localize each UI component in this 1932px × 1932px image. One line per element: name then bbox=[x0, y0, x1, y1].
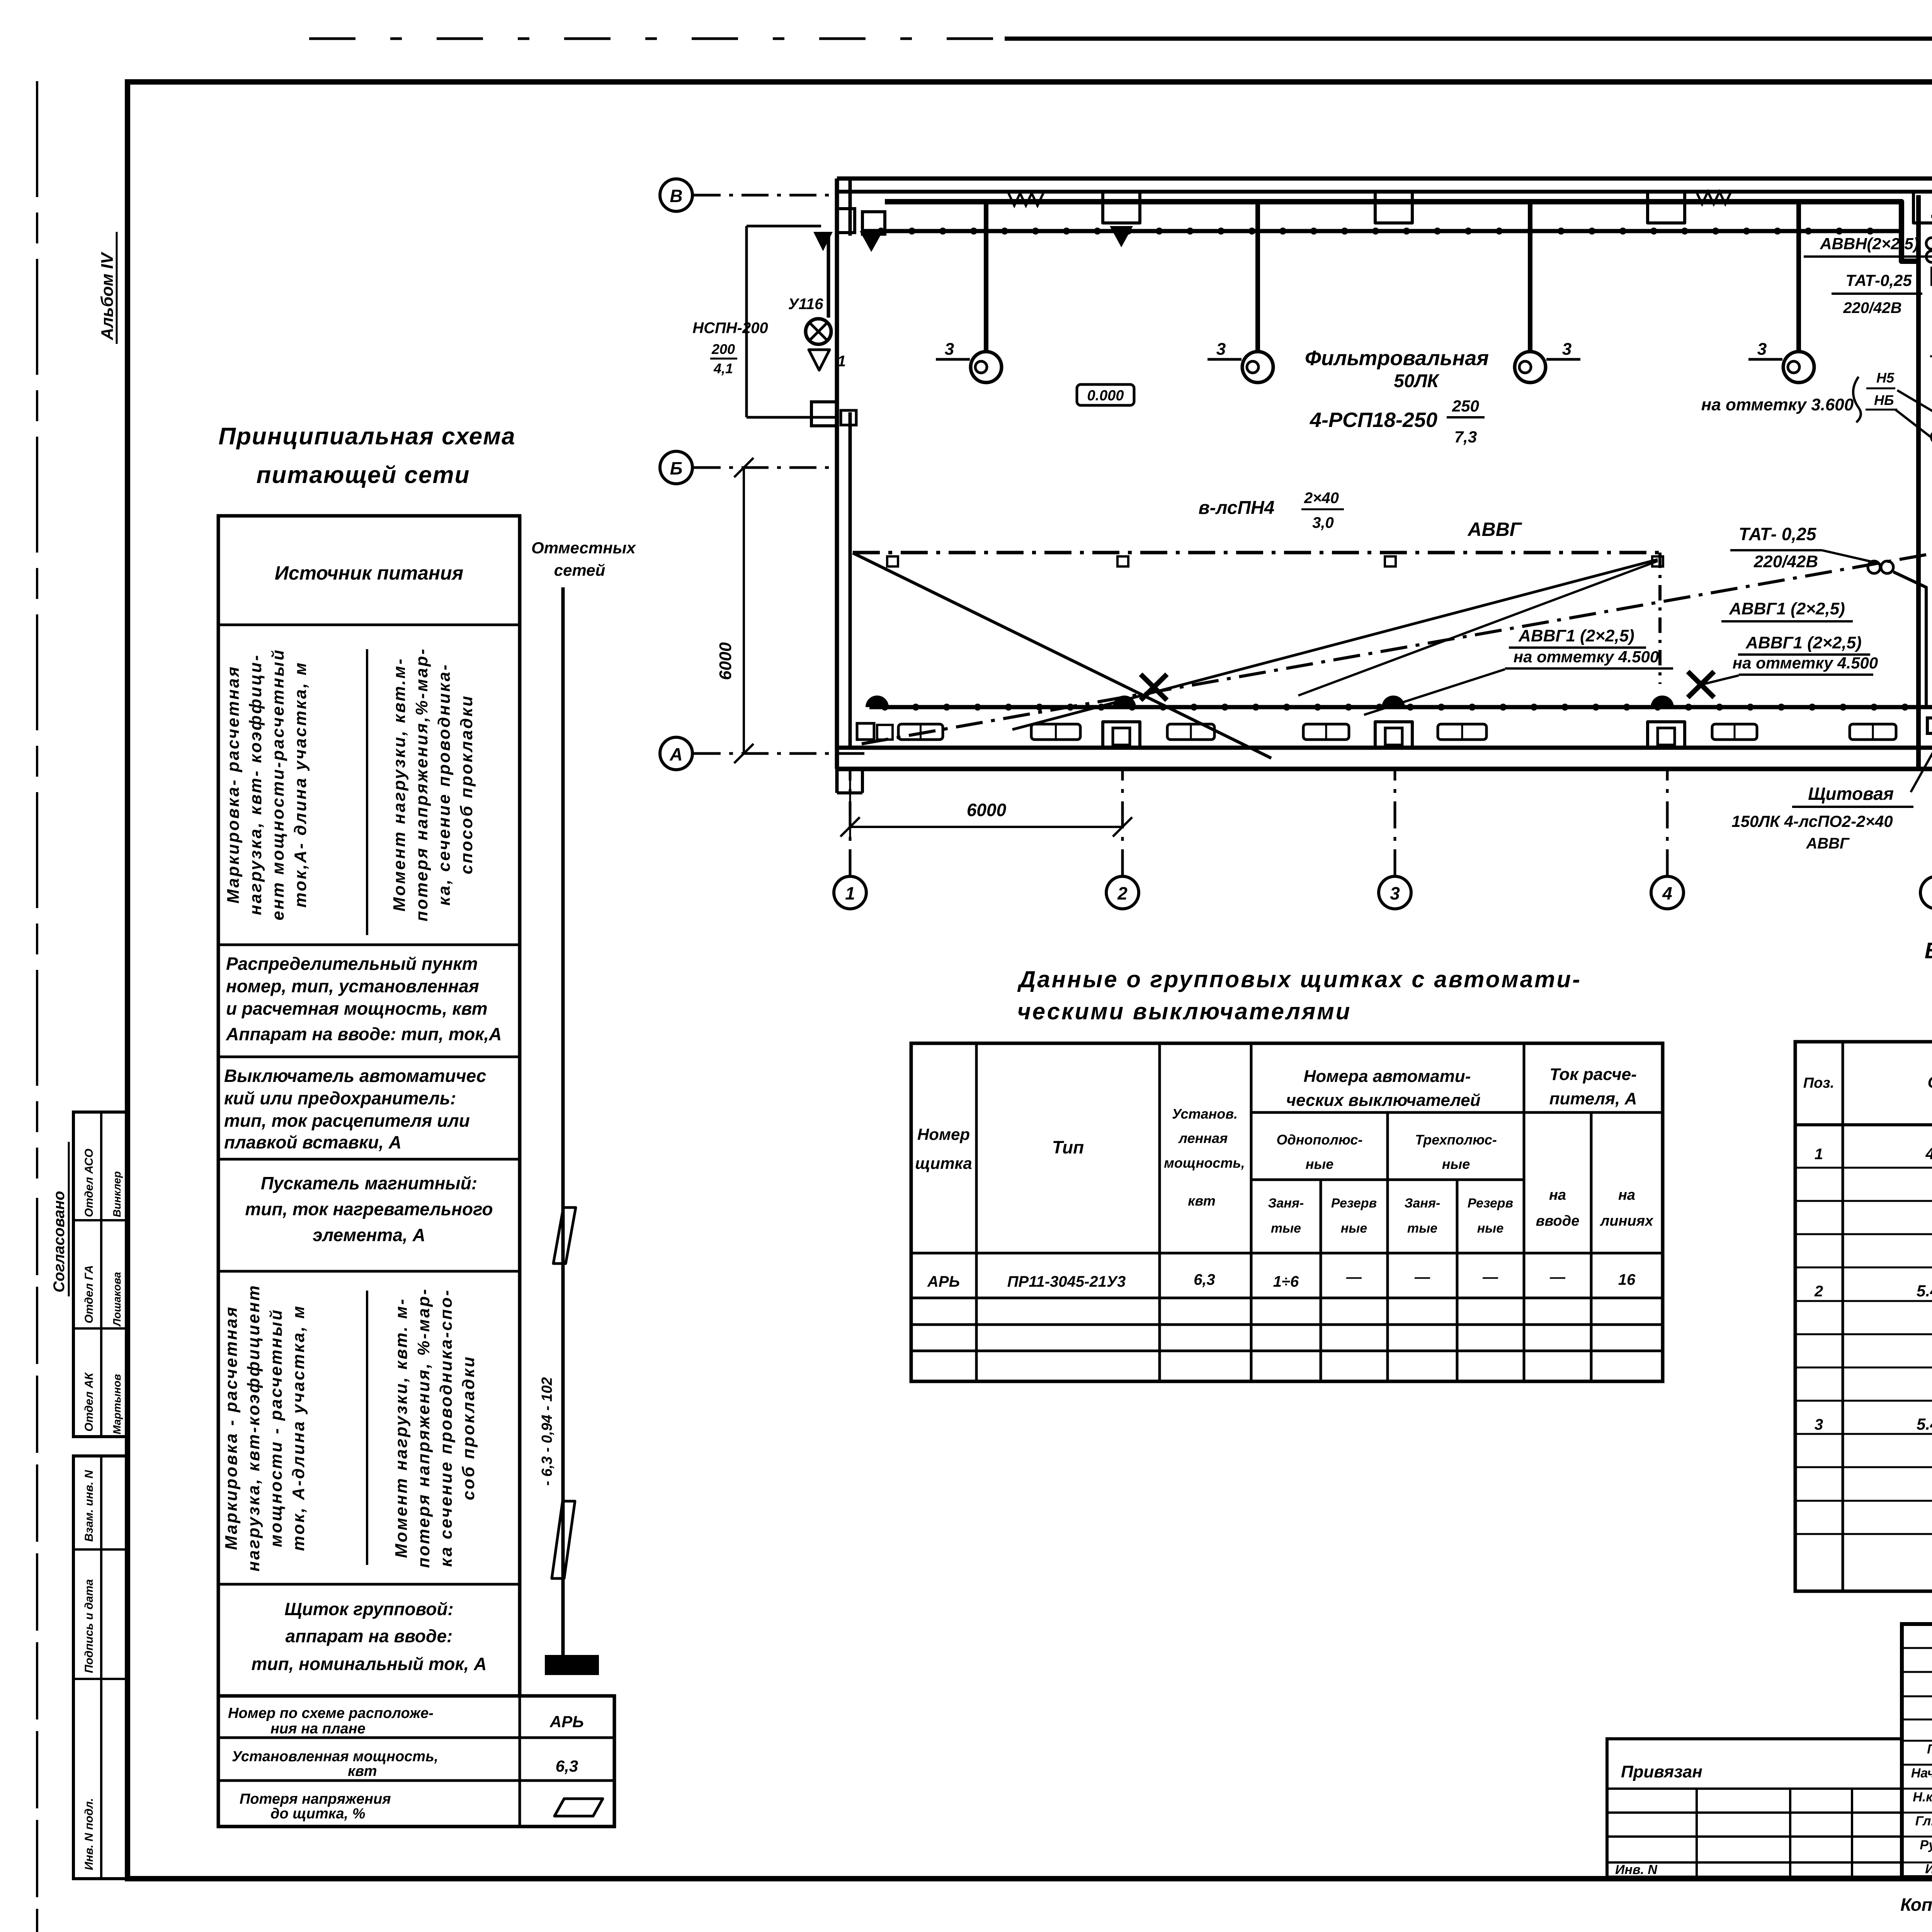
left small boxes bbox=[857, 723, 874, 740]
svg-text:220/42В: 220/42В bbox=[1753, 552, 1818, 571]
signature grid horizontals bbox=[1902, 1647, 1932, 1649]
svg-text:2: 2 bbox=[1814, 1283, 1823, 1300]
diagonal cable 3 bbox=[1012, 560, 1658, 730]
svg-text:Н.контр: Н.контр bbox=[1913, 1790, 1932, 1804]
svg-text:1÷6: 1÷6 bbox=[1273, 1273, 1299, 1290]
svg-text:ток, А-длина участка, м: ток, А-длина участка, м bbox=[289, 1304, 308, 1551]
svg-text:Лошакова: Лошакова bbox=[111, 1272, 123, 1327]
svg-text:Альбом IV: Альбом IV bbox=[98, 252, 117, 340]
break X 1 bbox=[1141, 674, 1167, 700]
svg-text:5.407-19: 5.407-19 bbox=[1917, 1415, 1932, 1433]
svg-text:АРЬ: АРЬ bbox=[927, 1273, 960, 1290]
svg-text:—: — bbox=[1346, 1269, 1362, 1286]
svg-text:Инв. N: Инв. N bbox=[1615, 1862, 1658, 1877]
svg-text:6000: 6000 bbox=[716, 642, 735, 680]
svg-text:потеря напряжения,%-мар-: потеря напряжения,%-мар- bbox=[412, 647, 431, 921]
svg-text:Источник питания: Источник питания bbox=[275, 562, 463, 584]
row marking 1 divider bbox=[366, 649, 368, 935]
title block frame bbox=[1902, 1624, 1932, 1877]
svg-text:щитка: щитка bbox=[915, 1154, 972, 1172]
grid col 5 bbox=[1920, 876, 1932, 909]
lamp drop 3960 bbox=[1528, 202, 1532, 352]
bus start point bbox=[860, 231, 883, 252]
svg-text:тип, ток нагревательного: тип, ток нагревательного bbox=[245, 1199, 493, 1219]
данные frame bbox=[911, 1043, 1663, 1381]
svg-text:Обозначение: Обозначение bbox=[1927, 1073, 1932, 1091]
svg-text:ток,А- длина участка, м: ток,А- длина участка, м bbox=[291, 661, 310, 908]
svg-text:ные: ные bbox=[1477, 1221, 1503, 1236]
radiator 2325 bbox=[898, 724, 943, 740]
svg-text:Трехполюс-: Трехполюс- bbox=[1415, 1132, 1497, 1148]
svg-text:Гл.спец: Гл.спец bbox=[1915, 1814, 1932, 1828]
svg-text:квт: квт bbox=[1188, 1193, 1216, 1209]
svg-text:2×40: 2×40 bbox=[1304, 490, 1339, 507]
bus corner pair bbox=[1926, 238, 1932, 249]
svg-text:Маркировка - расчетная: Маркировка - расчетная bbox=[222, 1306, 241, 1550]
svg-text:вводе: вводе bbox=[1536, 1213, 1580, 1229]
svg-text:3: 3 bbox=[1815, 1416, 1823, 1433]
radiator 3373 bbox=[1303, 724, 1349, 740]
svg-text:Рук.гр: Рук.гр bbox=[1920, 1838, 1932, 1852]
svg-text:3: 3 bbox=[1216, 340, 1226, 359]
niche lamp point bbox=[1110, 226, 1133, 247]
svg-text:кий или предохранитель:: кий или предохранитель: bbox=[224, 1088, 456, 1108]
svg-text:Распределительный пункт: Распределительный пункт bbox=[226, 954, 478, 974]
dome 4302 bbox=[1651, 696, 1674, 707]
svg-text:—: — bbox=[1482, 1269, 1498, 1286]
svg-text:способ прокладки: способ прокладки bbox=[457, 694, 476, 874]
svg-text:потеря напряжения, %-мар-: потеря напряжения, %-мар- bbox=[414, 1287, 433, 1568]
svg-text:Привязан: Привязан bbox=[1621, 1762, 1702, 1781]
svg-text:ческих выключателей: ческих выключателей bbox=[1286, 1091, 1480, 1110]
svg-text:пителя, А: пителя, А bbox=[1549, 1089, 1637, 1108]
switch wire bbox=[885, 202, 1920, 261]
top wall bbox=[837, 177, 1932, 181]
svg-text:3: 3 bbox=[1757, 340, 1767, 359]
leader Щитовая bbox=[1911, 726, 1932, 792]
top fold line bbox=[309, 37, 1005, 40]
svg-text:220/42В: 220/42В bbox=[1843, 299, 1901, 316]
svg-text:ные: ные bbox=[1306, 1156, 1334, 1172]
svg-text:Принципиальная схема: Принципиальная схема bbox=[218, 423, 515, 450]
svg-text:0.000: 0.000 bbox=[1087, 388, 1124, 404]
svg-text:Фильтровальная: Фильтровальная bbox=[1305, 347, 1489, 370]
svg-text:А: А bbox=[669, 744, 682, 764]
svg-text:1: 1 bbox=[845, 883, 855, 903]
svg-text:ент мощности-расчетный: ент мощности-расчетный bbox=[269, 648, 287, 920]
svg-text:4-РСП18-250: 4-РСП18-250 bbox=[1310, 408, 1437, 432]
данные horizontals bbox=[1251, 1111, 1663, 1114]
radiator 4431 bbox=[1712, 724, 1757, 740]
lamp drop 2552 bbox=[984, 202, 988, 352]
svg-text:Установ.: Установ. bbox=[1172, 1106, 1238, 1122]
svg-text:Поз.: Поз. bbox=[1803, 1075, 1835, 1091]
svg-text:Отдел АСО: Отдел АСО bbox=[83, 1149, 95, 1217]
radiator 3021 bbox=[1167, 724, 1214, 740]
grid col 3 bbox=[1379, 876, 1411, 909]
sheet edge left bbox=[36, 81, 38, 1179]
lamp УНБ bbox=[827, 232, 830, 318]
svg-text:Резерв: Резерв bbox=[1331, 1196, 1377, 1211]
svg-text:на отметку 4.500: на отметку 4.500 bbox=[1514, 648, 1659, 666]
dim 6000 horizontal bbox=[850, 826, 1122, 828]
svg-text:Щиток групповой:: Щиток групповой: bbox=[284, 1599, 454, 1619]
break X 2 bbox=[1688, 672, 1714, 697]
lamp drop 4655 bbox=[1796, 202, 1801, 352]
left wall bbox=[835, 179, 839, 769]
tray hanger 3598 bbox=[1385, 556, 1396, 566]
svg-text:АВВГ1 (2×2,5): АВВГ1 (2×2,5) bbox=[1729, 599, 1845, 618]
svg-text:ТАТ- 0,25: ТАТ- 0,25 bbox=[1739, 524, 1817, 544]
ведомость frame bbox=[1795, 1042, 1932, 1591]
stair boxes bbox=[837, 209, 855, 233]
tray hanger 2310 bbox=[887, 556, 898, 566]
svg-text:мощности - расчетный: мощности - расчетный bbox=[267, 1308, 286, 1547]
radiator 2669 bbox=[1031, 724, 1080, 740]
wall niche 3607 bbox=[1375, 192, 1412, 223]
row marking 2 divider bbox=[366, 1291, 368, 1565]
svg-text:на: на bbox=[1618, 1187, 1635, 1203]
grid row А bbox=[660, 737, 692, 770]
svg-text:АВВН(2×2,5): АВВН(2×2,5) bbox=[1820, 235, 1919, 253]
svg-text:Ведомость узлов установки э: Ведомость узлов установки электрического bbox=[1925, 938, 1932, 963]
schematic table frame bbox=[218, 516, 520, 1696]
svg-text:Взам. инв. N: Взам. инв. N bbox=[83, 1469, 95, 1542]
svg-text:ГИП: ГИП bbox=[1927, 1742, 1932, 1757]
tray hanger 2906 bbox=[1117, 556, 1128, 566]
svg-text:линиях: линиях bbox=[1600, 1213, 1654, 1229]
wall niche 2902 bbox=[1103, 192, 1140, 223]
grid row Б bbox=[660, 451, 692, 484]
tray hanger 4290 bbox=[1652, 556, 1663, 566]
svg-text:Согласовано: Согласовано bbox=[51, 1191, 68, 1293]
svg-text:НСПН-200: НСПН-200 bbox=[692, 320, 768, 337]
svg-text:6,3: 6,3 bbox=[556, 1757, 578, 1775]
svg-text:7,3: 7,3 bbox=[1454, 428, 1477, 446]
elevation 0.000 bbox=[1077, 384, 1134, 405]
svg-text:Тип: Тип bbox=[1052, 1137, 1084, 1157]
floor niche 3607 bbox=[1375, 722, 1412, 748]
dim 6000 vertical bbox=[743, 468, 745, 753]
svg-text:сетей: сетей bbox=[554, 561, 605, 579]
wall stub bbox=[835, 769, 839, 793]
svg-text:номер, тип, установленная: номер, тип, установленная bbox=[226, 976, 479, 996]
inventory block bbox=[73, 1456, 128, 1879]
кладовая top wall bbox=[1931, 215, 1932, 218]
grid col 2 bbox=[1106, 876, 1139, 909]
approval table bbox=[73, 1112, 128, 1437]
svg-text:Пускатель магнитный:: Пускатель магнитный: bbox=[261, 1173, 477, 1193]
svg-text:ные: ные bbox=[1442, 1156, 1470, 1172]
bottom bus bbox=[869, 705, 1932, 709]
svg-text:Б: Б bbox=[670, 458, 683, 478]
wall niche 4312 bbox=[1648, 192, 1685, 223]
ceiling bus bbox=[862, 229, 1901, 233]
svg-text:Ток расче-: Ток расче- bbox=[1549, 1065, 1637, 1084]
svg-text:Маркировка- расчетная: Маркировка- расчетная bbox=[224, 665, 243, 904]
feeder wire bbox=[561, 587, 565, 1656]
svg-text:АВВГ: АВВГ bbox=[1806, 835, 1850, 852]
svg-text:Инж.: Инж. bbox=[1925, 1862, 1932, 1876]
svg-text:Установленная мощность,: Установленная мощность, bbox=[232, 1748, 438, 1765]
wall niche 5000 bbox=[1913, 192, 1932, 223]
svg-text:в-лсПН4: в-лсПН4 bbox=[1199, 498, 1275, 518]
grid row В bbox=[660, 179, 692, 211]
feeder panel blob bbox=[545, 1655, 599, 1675]
svg-text:Щитовая: Щитовая bbox=[1808, 784, 1894, 804]
svg-text:В: В bbox=[670, 186, 682, 206]
НБ fixture bbox=[1931, 432, 1932, 442]
svg-text:соб прокладки: соб прокладки bbox=[459, 1355, 478, 1500]
svg-text:250: 250 bbox=[1452, 397, 1479, 415]
ведомость verticals bbox=[1842, 1042, 1844, 1591]
svg-text:50ЛК: 50ЛК bbox=[1394, 371, 1440, 391]
svg-text:Однополюс-: Однополюс- bbox=[1276, 1132, 1362, 1148]
svg-text:Мартынов: Мартынов bbox=[111, 1374, 123, 1434]
svg-text:ческими выключателями: ческими выключателями bbox=[1017, 998, 1352, 1024]
svg-text:4,1: 4,1 bbox=[713, 361, 733, 376]
svg-text:плавкой вставки, А: плавкой вставки, А bbox=[224, 1132, 401, 1152]
svg-text:до щитка, %: до щитка, % bbox=[270, 1806, 366, 1822]
svg-text:Момент нагрузки, квт. м-: Момент нагрузки, квт. м- bbox=[392, 1298, 411, 1558]
svg-text:4.407-233-001: 4.407-233-001 bbox=[1925, 1145, 1932, 1163]
cable tray bbox=[853, 551, 1660, 554]
svg-text:АВВГ1 (2×2,5): АВВГ1 (2×2,5) bbox=[1518, 626, 1634, 645]
svg-text:АВВГ: АВВГ bbox=[1467, 519, 1522, 540]
dome 2270 bbox=[866, 696, 889, 707]
feeder entry bbox=[745, 226, 748, 417]
svg-text:1: 1 bbox=[1815, 1146, 1823, 1163]
svg-text:3,0: 3,0 bbox=[1312, 514, 1334, 531]
svg-text:Н5: Н5 bbox=[1876, 370, 1895, 386]
wire squiggle 1 bbox=[1009, 193, 1043, 206]
svg-text:нагрузка, квт-коэффициент: нагрузка, квт-коэффициент bbox=[244, 1284, 263, 1571]
svg-text:ния на плане: ния на плане bbox=[270, 1721, 366, 1737]
данные verticals bbox=[975, 1043, 978, 1381]
svg-text:тип, ток расцепителя или: тип, ток расцепителя или bbox=[224, 1111, 470, 1131]
svg-text:и расчетная мощность, квт: и расчетная мощность, квт bbox=[226, 998, 488, 1019]
svg-text:1: 1 bbox=[837, 353, 846, 370]
dome 3606 bbox=[1382, 696, 1405, 707]
svg-text:ка сечение проводника-спо-: ка сечение проводника-спо- bbox=[437, 1289, 456, 1567]
svg-text:АРЬ: АРЬ bbox=[549, 1713, 584, 1731]
svg-text:6000: 6000 bbox=[967, 800, 1007, 820]
svg-text:тые: тые bbox=[1407, 1221, 1437, 1236]
diagonal leader L2b bbox=[1701, 675, 1739, 685]
feeder parallelogram 2 bbox=[552, 1501, 575, 1578]
feeder parallelogram 1 bbox=[553, 1207, 576, 1264]
svg-text:ленная: ленная bbox=[1178, 1130, 1228, 1146]
svg-text:Потеря напряжения: Потеря напряжения bbox=[240, 1791, 391, 1807]
svg-text:200: 200 bbox=[711, 341, 735, 357]
svg-text:3: 3 bbox=[945, 340, 954, 359]
svg-text:Копировал Марченко: Копировал Марченко bbox=[1900, 1895, 1932, 1915]
svg-text:ные: ные bbox=[1341, 1221, 1367, 1236]
diagonal leader L1 bbox=[1298, 561, 1658, 696]
svg-text:ТАТ-0,25: ТАТ-0,25 bbox=[1845, 271, 1912, 289]
svg-text:6,3: 6,3 bbox=[1194, 1271, 1215, 1288]
svg-text:2: 2 bbox=[1117, 883, 1128, 903]
svg-text:—: — bbox=[1414, 1269, 1430, 1286]
svg-text:4: 4 bbox=[1662, 883, 1672, 903]
diagonal cable 1 bbox=[853, 553, 1271, 758]
svg-text:Момент нагрузки, квт.м-: Момент нагрузки, квт.м- bbox=[390, 657, 409, 912]
svg-text:150ЛК 4-лсПО2-2×40: 150ЛК 4-лсПО2-2×40 bbox=[1731, 812, 1893, 830]
svg-text:ка, сечение проводника-: ка, сечение проводника- bbox=[435, 663, 454, 905]
svg-text:нагрузка, квт- коэффици-: нагрузка, квт- коэффици- bbox=[246, 654, 265, 915]
svg-text:5.407-19: 5.407-19 bbox=[1917, 1282, 1932, 1300]
привязан strip bbox=[1607, 1739, 1902, 1877]
svg-text:Резерв: Резерв bbox=[1468, 1196, 1513, 1211]
svg-text:НБ: НБ bbox=[1874, 392, 1894, 408]
ТАТ leader bbox=[1822, 550, 1874, 562]
svg-text:Винклер: Винклер bbox=[111, 1171, 123, 1217]
щиток box bbox=[1927, 718, 1932, 733]
svg-text:3: 3 bbox=[1390, 883, 1400, 903]
svg-text:- 6,3 - 0,94 - 102: - 6,3 - 0,94 - 102 bbox=[539, 1377, 555, 1486]
svg-text:Отдел ГА: Отдел ГА bbox=[83, 1265, 95, 1323]
diagonal tray 2 bbox=[862, 553, 1932, 744]
svg-text:Инв. N подл.: Инв. N подл. bbox=[83, 1798, 95, 1870]
lamp drop 3255 bbox=[1255, 202, 1260, 352]
svg-text:Аппарат на вводе: тип, ток,А: Аппарат на вводе: тип, ток,А bbox=[226, 1024, 502, 1044]
dome 2910 bbox=[1113, 696, 1136, 707]
grid col 1 bbox=[834, 876, 866, 909]
schematic row lines bbox=[218, 624, 520, 626]
svg-text:Номера автомати-: Номера автомати- bbox=[1304, 1067, 1471, 1086]
svg-text:на: на bbox=[1549, 1187, 1566, 1203]
svg-text:Отместных: Отместных bbox=[531, 539, 636, 557]
svg-text:Заня-: Заня- bbox=[1268, 1196, 1304, 1211]
radiator 3721 bbox=[1438, 724, 1486, 740]
svg-text:квт: квт bbox=[348, 1763, 377, 1779]
svg-text:3: 3 bbox=[1562, 340, 1571, 359]
svg-text:Номер: Номер bbox=[917, 1125, 970, 1143]
svg-text:на отметку 3.600: на отметку 3.600 bbox=[1701, 395, 1854, 414]
svg-text:тип, номинальный ток, А: тип, номинальный ток, А bbox=[252, 1654, 487, 1674]
schematic bottom rows bbox=[218, 1696, 614, 1827]
floor niche 2902 bbox=[1103, 722, 1140, 748]
svg-text:на отметку 4.500: на отметку 4.500 bbox=[1733, 654, 1878, 672]
ведомость horizontals bbox=[1795, 1123, 1932, 1126]
svg-text:элемента, А: элемента, А bbox=[313, 1225, 425, 1245]
svg-text:Выключатель автоматичес: Выключатель автоматичес bbox=[224, 1066, 486, 1086]
svg-text:АВВГ1 (2×2,5): АВВГ1 (2×2,5) bbox=[1745, 633, 1862, 652]
svg-text:16: 16 bbox=[1618, 1271, 1636, 1288]
svg-text:У116: У116 bbox=[788, 296, 824, 313]
svg-text:аппарат на вводе:: аппарат на вводе: bbox=[286, 1626, 453, 1646]
floor niche 4312 bbox=[1648, 722, 1685, 748]
svg-text:Номер по схеме расположе-: Номер по схеме расположе- bbox=[228, 1705, 434, 1721]
partition hall-rooms bbox=[1916, 195, 1921, 769]
diagonal leader L2a bbox=[1364, 669, 1505, 715]
svg-text:Нач.отд.: Нач.отд. bbox=[1911, 1766, 1932, 1781]
bottom wall bbox=[837, 746, 1932, 750]
wire squiggle 2 bbox=[1696, 192, 1731, 204]
svg-text:Подпись и дата: Подпись и дата bbox=[83, 1579, 95, 1673]
svg-text:тые: тые bbox=[1271, 1221, 1301, 1236]
svg-text:питающей сети: питающей сети bbox=[257, 462, 470, 488]
svg-text:ПР11-3045-21У3: ПР11-3045-21У3 bbox=[1007, 1273, 1126, 1290]
svg-text:Данные о групповых щитках: Данные о групповых щитках с автомати- bbox=[1017, 966, 1582, 992]
svg-text:—: — bbox=[1549, 1269, 1566, 1286]
svg-text:Заня-: Заня- bbox=[1405, 1196, 1440, 1211]
room wire stubs bbox=[1930, 267, 1932, 286]
radiator 4787 bbox=[1850, 724, 1896, 740]
grid col 4 bbox=[1651, 876, 1684, 909]
svg-text:Отдел АК: Отдел АК bbox=[83, 1372, 95, 1432]
svg-text:мощность,: мощность, bbox=[1164, 1155, 1245, 1171]
